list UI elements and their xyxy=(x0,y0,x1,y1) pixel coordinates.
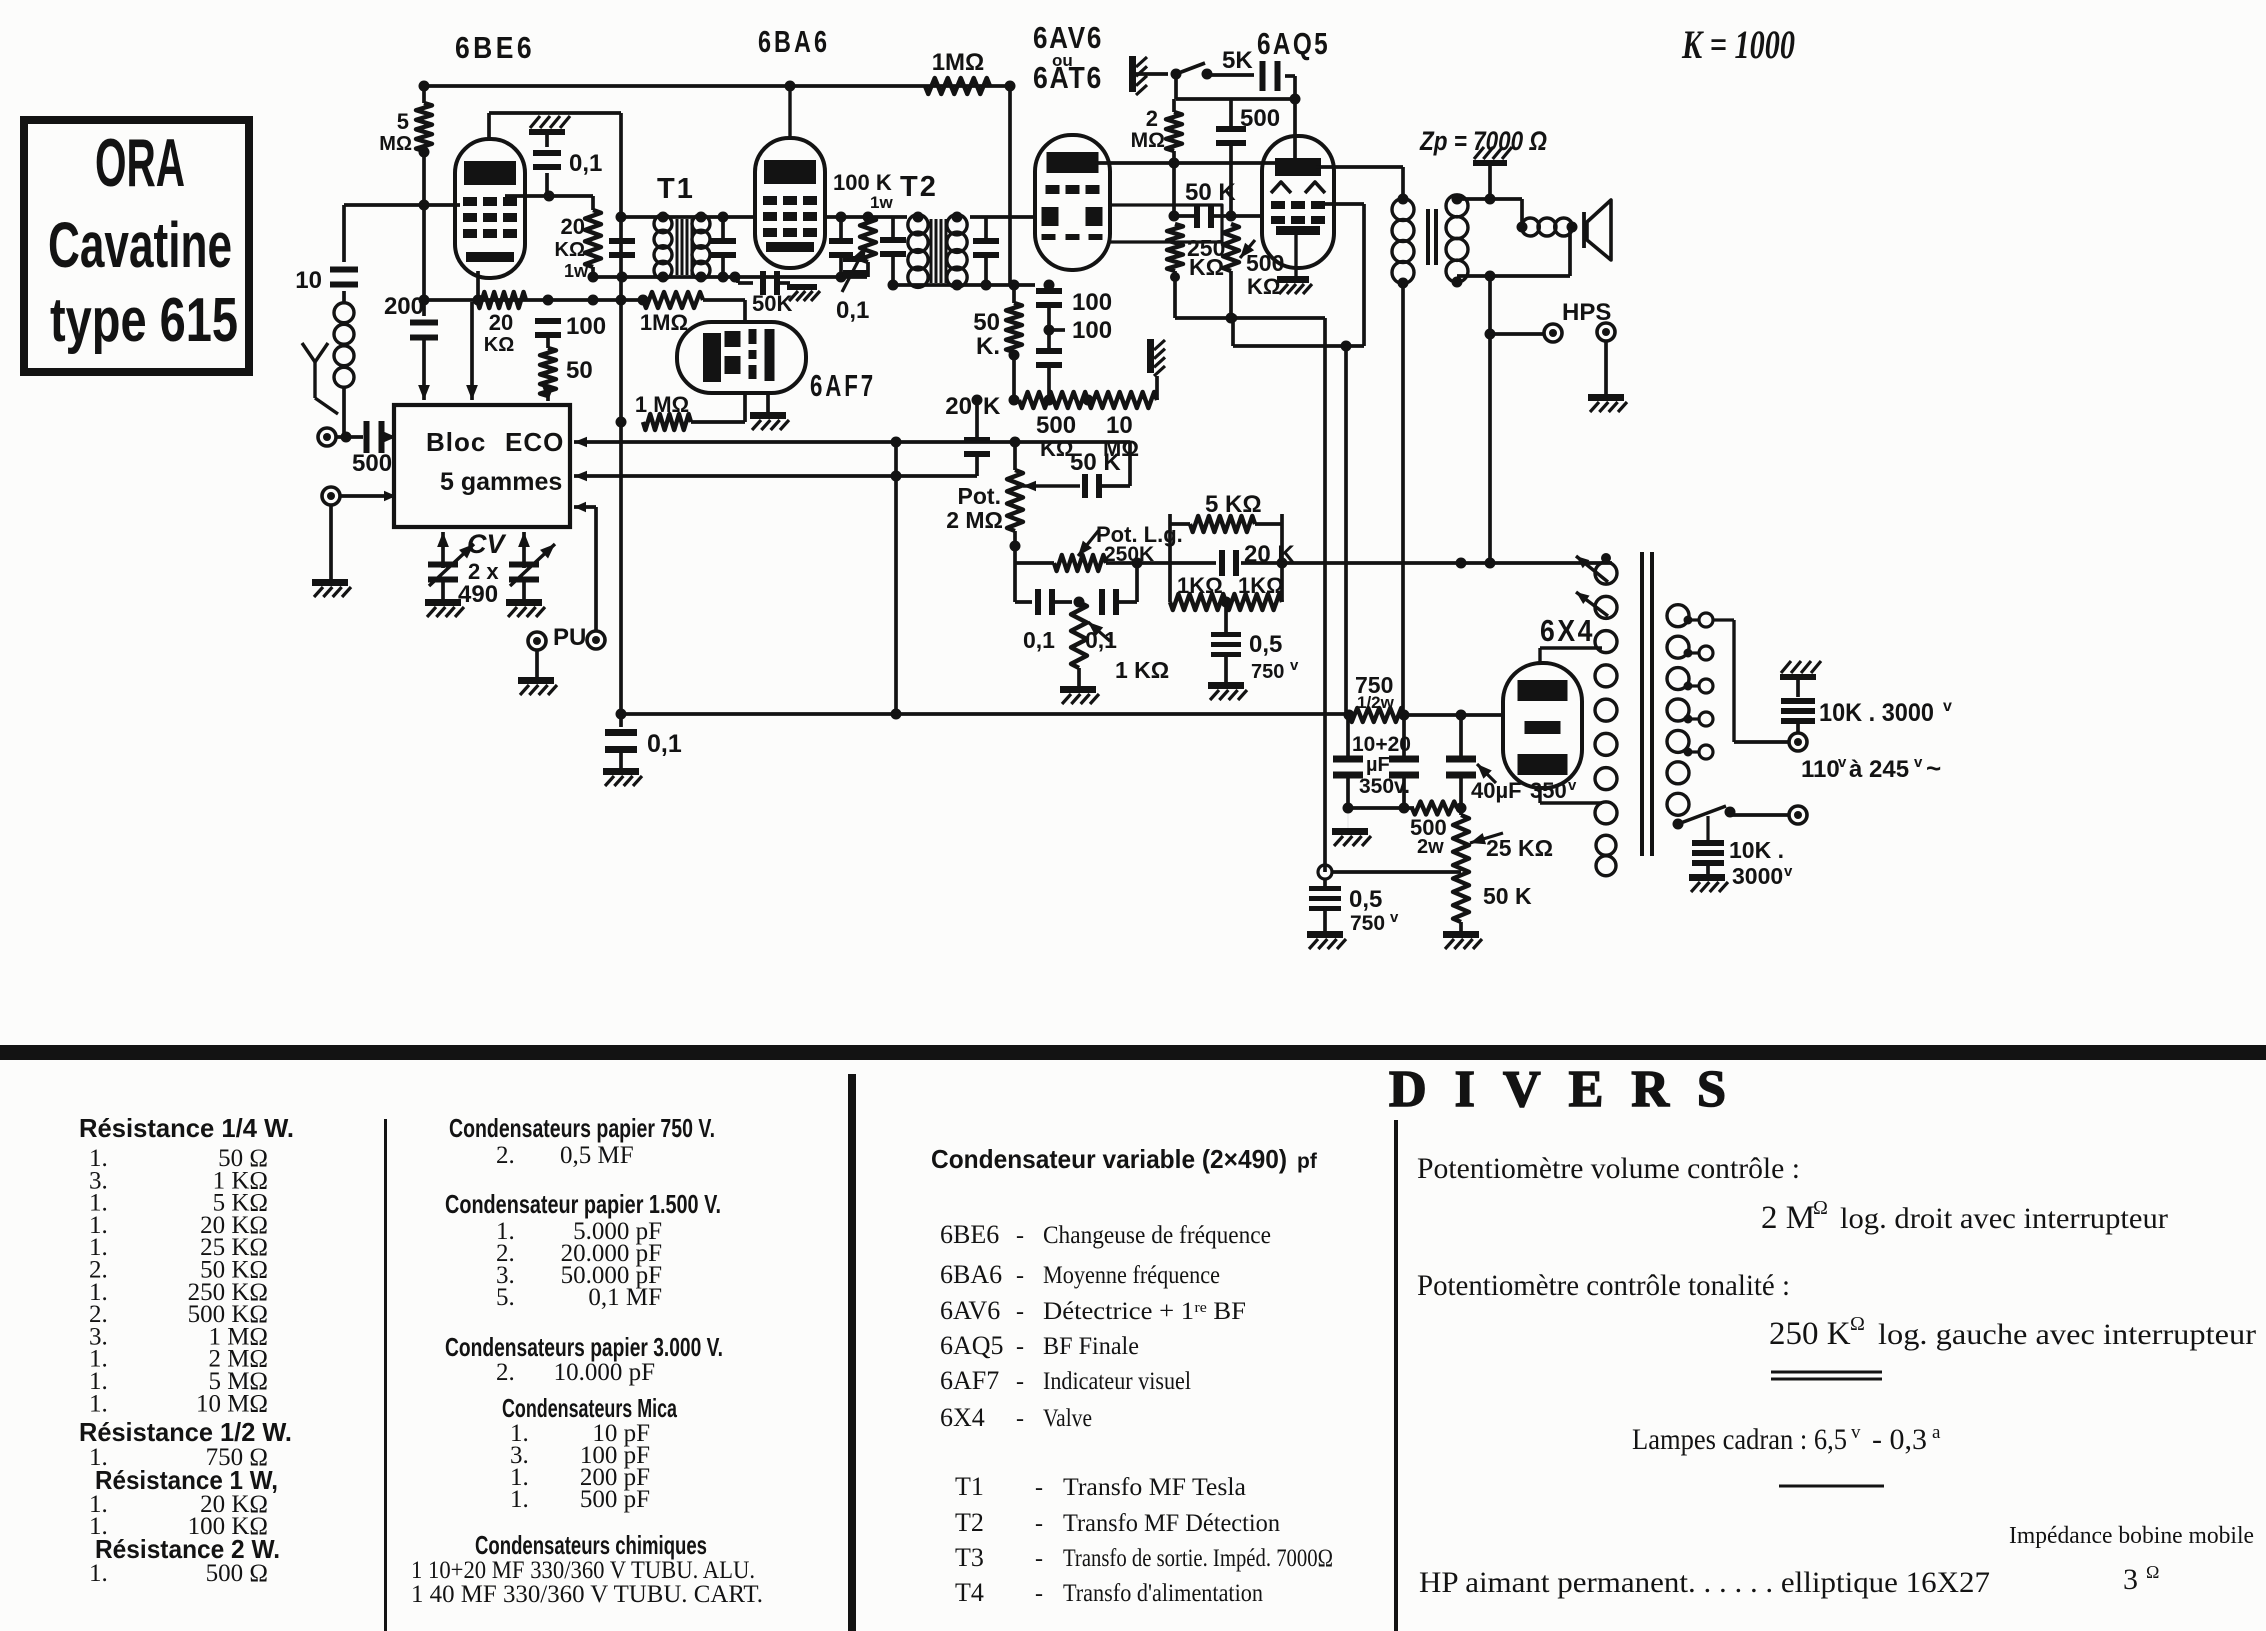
svg-text:1.: 1. xyxy=(89,1560,108,1587)
svg-text:50 K: 50 K xyxy=(1483,883,1532,909)
svg-text:Ω: Ω xyxy=(1850,1313,1865,1335)
svg-text:Valve: Valve xyxy=(1043,1405,1092,1432)
svg-text:0,1: 0,1 xyxy=(569,150,602,177)
svg-text:-: - xyxy=(1016,1406,1024,1432)
svg-text:v: v xyxy=(1838,754,1847,771)
svg-text:T1: T1 xyxy=(657,173,695,205)
svg-text:CV: CV xyxy=(467,529,506,559)
svg-text:ORA: ORA xyxy=(95,125,185,201)
svg-text:KΩ: KΩ xyxy=(1040,436,1074,461)
svg-text:K: K xyxy=(983,393,1001,420)
svg-text:v: v xyxy=(1943,698,1952,715)
svg-text:Indicateur visuel: Indicateur visuel xyxy=(1043,1368,1191,1395)
svg-text:K.: K. xyxy=(976,333,1000,360)
svg-text:1MΩ: 1MΩ xyxy=(932,49,985,76)
svg-text:100: 100 xyxy=(1072,289,1112,316)
svg-text:a: a xyxy=(1932,1422,1941,1443)
svg-text:2 M: 2 M xyxy=(1761,1200,1815,1236)
svg-text:Changeuse de fréquence: Changeuse de fréquence xyxy=(1043,1222,1271,1249)
svg-text:100: 100 xyxy=(566,313,606,340)
svg-text:100: 100 xyxy=(1072,317,1112,344)
svg-text:Impédance bobine mobile: Impédance bobine mobile xyxy=(2009,1523,2254,1549)
svg-text:K = 1000: K = 1000 xyxy=(1681,22,1795,67)
svg-text:MΩ: MΩ xyxy=(379,133,412,155)
svg-text:100 K: 100 K xyxy=(833,170,892,195)
svg-text:KΩ: KΩ xyxy=(484,334,514,356)
svg-text:5: 5 xyxy=(397,109,409,134)
svg-text:KΩ: KΩ xyxy=(555,239,585,261)
svg-text:6AQ5: 6AQ5 xyxy=(940,1331,1004,1360)
svg-text:-: - xyxy=(1035,1511,1043,1537)
svg-text:1.: 1. xyxy=(89,1390,108,1417)
svg-text:6AF7: 6AF7 xyxy=(940,1366,999,1395)
svg-text:50: 50 xyxy=(566,357,593,384)
svg-text:110: 110 xyxy=(1801,756,1840,783)
svg-text:Zp = 7000 Ω: Zp = 7000 Ω xyxy=(1419,126,1547,156)
svg-text:T2: T2 xyxy=(955,1508,984,1537)
svg-text:type 615: type 615 xyxy=(50,286,238,355)
svg-text:-: - xyxy=(1035,1581,1043,1607)
svg-text:10 MΩ: 10 MΩ xyxy=(196,1390,268,1417)
svg-text:6BA6: 6BA6 xyxy=(940,1260,1002,1289)
svg-text:Condensateur variable (2×490): Condensateur variable (2×490) xyxy=(931,1144,1287,1174)
svg-text:2 MΩ: 2 MΩ xyxy=(946,507,1003,533)
svg-text:Moyenne fréquence: Moyenne fréquence xyxy=(1043,1262,1220,1289)
svg-text:2.: 2. xyxy=(496,1359,515,1386)
svg-text:Bloc: Bloc xyxy=(426,427,486,457)
svg-text:HPS: HPS xyxy=(1562,299,1611,326)
svg-text:Condensateurs chimiques: Condensateurs chimiques xyxy=(475,1530,707,1560)
svg-text:750: 750 xyxy=(1251,661,1284,683)
svg-text:500: 500 xyxy=(1240,105,1280,132)
svg-text:250 K: 250 K xyxy=(1769,1316,1851,1352)
svg-text:0,1: 0,1 xyxy=(647,730,682,758)
svg-text:1 MΩ: 1 MΩ xyxy=(635,392,689,417)
svg-text:5K: 5K xyxy=(1222,47,1253,74)
svg-text:3: 3 xyxy=(2123,1563,2138,1596)
svg-text:20: 20 xyxy=(945,393,972,420)
svg-text:10.000 pF: 10.000 pF xyxy=(554,1359,655,1386)
svg-text:Condensateur papier 1.500 V.: Condensateur papier 1.500 V. xyxy=(445,1189,721,1219)
svg-text:~: ~ xyxy=(1926,753,1941,783)
svg-text:500: 500 xyxy=(1036,412,1076,439)
svg-text:-: - xyxy=(1016,1263,1024,1289)
svg-text:25 KΩ: 25 KΩ xyxy=(1486,835,1553,861)
svg-text:500: 500 xyxy=(352,450,392,477)
svg-text:-: - xyxy=(1016,1369,1024,1395)
svg-text:5 KΩ: 5 KΩ xyxy=(1205,491,1262,518)
svg-text:Résistance 1/4 W.: Résistance 1/4 W. xyxy=(79,1113,294,1143)
svg-text:KΩ: KΩ xyxy=(1247,274,1281,299)
svg-text:50K: 50K xyxy=(752,291,792,316)
svg-text:1 10+20 MF 330/360 V TUBU. A: 1 10+20 MF 330/360 V TUBU. ALU. xyxy=(411,1557,755,1584)
svg-text:T2: T2 xyxy=(900,171,938,203)
svg-text:Condensateurs papier 750 V.: Condensateurs papier 750 V. xyxy=(449,1113,715,1143)
svg-text:Lampes cadran : 6,5: Lampes cadran : 6,5 xyxy=(1632,1423,1847,1456)
svg-text:v: v xyxy=(1290,657,1299,674)
svg-text:20: 20 xyxy=(489,310,513,335)
svg-text:1/2w: 1/2w xyxy=(1357,693,1395,712)
svg-text:0,5: 0,5 xyxy=(1349,886,1382,913)
svg-text:0,1 MF: 0,1 MF xyxy=(588,1284,662,1311)
svg-text:Cavatine: Cavatine xyxy=(48,209,232,281)
svg-text:6AV6: 6AV6 xyxy=(1033,20,1103,55)
svg-text:10K .: 10K . xyxy=(1729,837,1784,863)
svg-text:6BE6: 6BE6 xyxy=(455,30,535,65)
svg-text:1.: 1. xyxy=(510,1486,529,1513)
svg-text:Transfo MF Tesla: Transfo MF Tesla xyxy=(1063,1474,1246,1501)
svg-text:0,5 MF: 0,5 MF xyxy=(560,1142,634,1169)
svg-text:6AF7: 6AF7 xyxy=(810,368,876,403)
svg-text:50: 50 xyxy=(973,309,1000,336)
svg-text:Pot.: Pot. xyxy=(958,483,1001,509)
svg-text:Résistance 1/2 W.: Résistance 1/2 W. xyxy=(79,1417,292,1447)
svg-text:750: 750 xyxy=(1350,912,1385,935)
svg-text:log. gauche avec interrupteu: log. gauche avec interrupteur xyxy=(1878,1318,2256,1351)
svg-text:10+20: 10+20 xyxy=(1352,733,1411,756)
svg-text:Ω: Ω xyxy=(1813,1197,1828,1219)
svg-text:500 Ω: 500 Ω xyxy=(206,1560,268,1587)
svg-text:1KΩ: 1KΩ xyxy=(1177,573,1223,598)
svg-text:490: 490 xyxy=(458,581,498,608)
svg-text:v: v xyxy=(1784,863,1793,880)
svg-text:T4: T4 xyxy=(955,1578,984,1607)
svg-text:à 245: à 245 xyxy=(1849,756,1909,783)
svg-text:BF Finale: BF Finale xyxy=(1043,1333,1139,1360)
svg-text:5.: 5. xyxy=(496,1284,515,1311)
svg-text:6BA6: 6BA6 xyxy=(758,24,830,59)
svg-text:200: 200 xyxy=(384,293,424,320)
svg-text:1w: 1w xyxy=(870,193,893,212)
svg-text:-: - xyxy=(1016,1299,1024,1325)
svg-text:1w: 1w xyxy=(564,261,589,281)
svg-text:Détectrice + 1ʳᵉ BF: Détectrice + 1ʳᵉ BF xyxy=(1043,1298,1246,1325)
svg-text:Potentiomètre contrôle tonalit: Potentiomètre contrôle tonalité : xyxy=(1417,1269,1790,1302)
svg-text:1 KΩ: 1 KΩ xyxy=(1115,657,1169,683)
svg-text:Transfo d'alimentation: Transfo d'alimentation xyxy=(1063,1580,1263,1607)
svg-text:0,1: 0,1 xyxy=(836,297,869,324)
svg-text:pf: pf xyxy=(1297,1150,1318,1173)
svg-text:ECO: ECO xyxy=(505,427,564,457)
svg-text:Condensateurs Mica: Condensateurs Mica xyxy=(502,1393,677,1423)
svg-text:20: 20 xyxy=(561,214,585,239)
svg-text:6BE6: 6BE6 xyxy=(940,1220,999,1249)
svg-text:50 K: 50 K xyxy=(1070,449,1121,476)
svg-text:PU: PU xyxy=(553,624,586,651)
svg-text:T1: T1 xyxy=(955,1472,984,1501)
svg-text:2.: 2. xyxy=(496,1142,515,1169)
svg-text:v: v xyxy=(1390,909,1399,926)
svg-text:2: 2 xyxy=(1146,106,1158,131)
svg-text:10K . 3000: 10K . 3000 xyxy=(1819,699,1934,727)
svg-text:Ω: Ω xyxy=(2146,1562,2159,1582)
svg-text:Transfo de sortie. Impéd. 7000: Transfo de sortie. Impéd. 7000Ω xyxy=(1063,1545,1333,1572)
svg-text:- 0,3: - 0,3 xyxy=(1872,1423,1927,1456)
svg-text:-: - xyxy=(1016,1223,1024,1249)
svg-text:500 pF: 500 pF xyxy=(580,1486,650,1513)
svg-text:Condensateurs papier 3.000 V.: Condensateurs papier 3.000 V. xyxy=(445,1332,723,1362)
svg-text:6AQ5: 6AQ5 xyxy=(1257,26,1330,61)
svg-text:v: v xyxy=(1851,1422,1861,1443)
svg-text:1 40 MF 330/360 V TUBU.: 1 40 MF 330/360 V TUBU. CART. xyxy=(411,1581,763,1608)
svg-text:KΩ: KΩ xyxy=(1189,254,1224,280)
svg-text:MΩ: MΩ xyxy=(1131,129,1165,152)
svg-text:T3: T3 xyxy=(955,1543,984,1572)
svg-text:-: - xyxy=(1016,1334,1024,1360)
svg-text:Potentiomètre volume contrôl: Potentiomètre volume contrôle : xyxy=(1417,1152,1800,1185)
svg-text:v: v xyxy=(1914,754,1923,771)
svg-text:µF: µF xyxy=(1366,754,1390,776)
svg-text:log. droit avec interrupteur: log. droit avec interrupteur xyxy=(1840,1202,2168,1235)
svg-text:10: 10 xyxy=(295,267,322,294)
svg-text:0,1: 0,1 xyxy=(1023,627,1055,653)
svg-text:5 gammes: 5 gammes xyxy=(440,468,562,496)
svg-text:1MΩ: 1MΩ xyxy=(640,310,688,335)
svg-text:-: - xyxy=(1035,1546,1043,1572)
svg-text:6AT6: 6AT6 xyxy=(1033,60,1103,95)
svg-text:HP aimant permanent. . . . .: HP aimant permanent. . . . . . elliptiqu… xyxy=(1419,1566,1990,1599)
svg-text:2w: 2w xyxy=(1417,836,1444,858)
svg-text:40µF: 40µF xyxy=(1471,778,1522,803)
svg-text:0,5: 0,5 xyxy=(1249,631,1282,658)
svg-text:DIVERS: DIVERS xyxy=(1389,1061,1754,1118)
svg-text:10: 10 xyxy=(1106,412,1133,439)
svg-text:0,1: 0,1 xyxy=(1085,627,1117,653)
svg-text:6X4: 6X4 xyxy=(1540,613,1595,648)
svg-text:6X4: 6X4 xyxy=(940,1403,985,1432)
svg-text:6AV6: 6AV6 xyxy=(940,1296,1000,1325)
svg-text:3000: 3000 xyxy=(1732,863,1783,889)
svg-text:-: - xyxy=(1035,1475,1043,1501)
svg-text:1KΩ: 1KΩ xyxy=(1238,573,1284,598)
svg-text:Transfo MF Détection: Transfo MF Détection xyxy=(1063,1510,1280,1537)
svg-text:50 K: 50 K xyxy=(1185,179,1236,206)
